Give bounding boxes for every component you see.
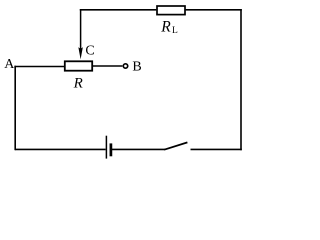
rheostat R body bbox=[65, 61, 92, 70]
wire: bottom-right horizontal to switch fixed contact bbox=[191, 148, 242, 150]
wire: bottom-left horizontal from left side to battery bbox=[15, 148, 105, 150]
wire: node A horizontal into rheostat R bbox=[14, 66, 64, 68]
resistor RL body bbox=[157, 6, 185, 15]
wire: from rheostat R to node B terminal bbox=[93, 65, 122, 67]
svg-text:R: R bbox=[73, 76, 83, 92]
wiper arrowhead into rheostat R (node C) bbox=[78, 47, 83, 59]
wire: left vertical side below node A bbox=[14, 66, 16, 151]
switch S blade (open) bbox=[164, 142, 187, 149]
wire: bottom middle from battery to switch pivot bbox=[112, 148, 165, 150]
wire: top-left horizontal from wiper riser to RL bbox=[80, 9, 157, 11]
svg-text:C: C bbox=[85, 43, 94, 58]
wire: top-right horizontal from RL to right side bbox=[186, 9, 242, 11]
svg-text:R: R bbox=[160, 18, 171, 35]
battery cell: short negative plate bbox=[110, 143, 113, 156]
node B open terminal circle bbox=[123, 64, 127, 68]
wire: wiper riser vertical down from top wire bbox=[80, 9, 82, 49]
svg-text:B: B bbox=[132, 60, 141, 75]
svg-text:L: L bbox=[172, 26, 178, 36]
svg-text:A: A bbox=[4, 57, 15, 72]
wire: right vertical side bbox=[240, 9, 242, 150]
battery cell: long positive plate bbox=[105, 136, 107, 159]
